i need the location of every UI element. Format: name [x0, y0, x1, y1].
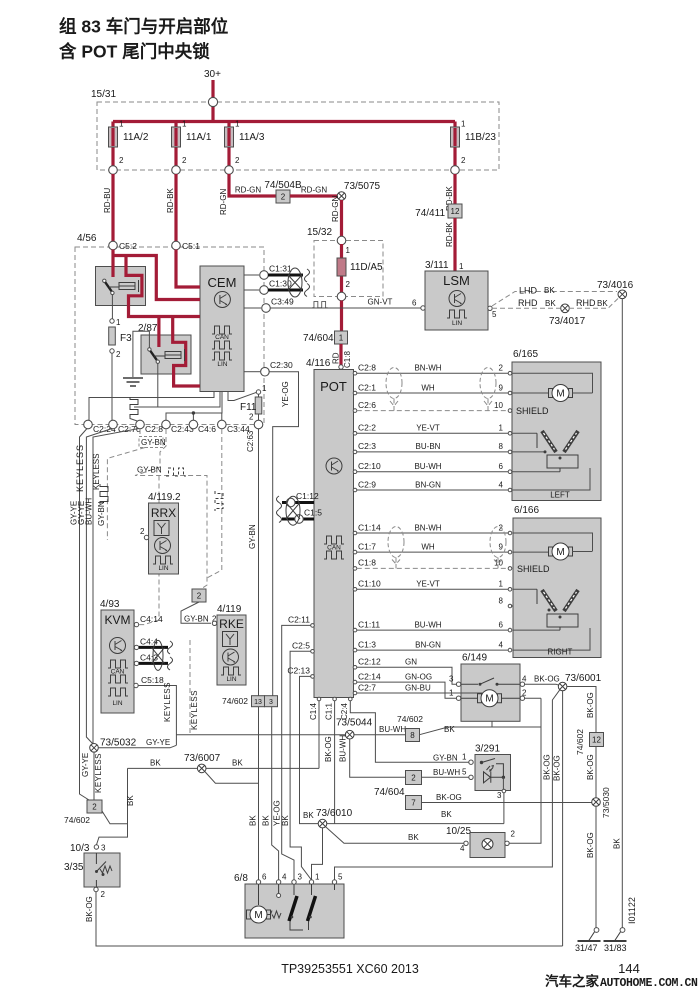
- svg-text:C2:2: C2:2: [358, 423, 376, 433]
- svg-text:BK-OG: BK-OG: [586, 754, 595, 780]
- wire red to 74/604 connector: [340, 301, 343, 332]
- svg-text:C2:63: C2:63: [246, 430, 255, 452]
- svg-text:10/25: 10/25: [446, 826, 471, 837]
- svg-text:6/8: 6/8: [234, 873, 248, 884]
- svg-text:BU-WH: BU-WH: [433, 768, 460, 777]
- svg-text:C2:3: C2:3: [358, 441, 376, 451]
- svg-text:BU-WH: BU-WH: [414, 620, 441, 629]
- svg-text:BK-OG: BK-OG: [553, 755, 562, 781]
- wire C2:7 GN-BU: [357, 692, 492, 694]
- 6/149 internals: [461, 683, 478, 685]
- svg-text:RIGHT: RIGHT: [548, 648, 573, 657]
- svg-text:73/5030: 73/5030: [601, 787, 611, 818]
- svg-text:73/5032: 73/5032: [100, 738, 137, 749]
- svg-text:KEYLESS: KEYLESS: [75, 444, 85, 492]
- svg-text:RD-GN: RD-GN: [301, 186, 327, 195]
- svg-text:C2:30: C2:30: [270, 360, 293, 370]
- svg-text:3/111: 3/111: [425, 260, 449, 271]
- svg-text:BK: BK: [545, 299, 556, 308]
- svg-text:BK-OG: BK-OG: [543, 754, 552, 780]
- svg-text:C1:11: C1:11: [358, 619, 380, 629]
- svg-text:74/602: 74/602: [575, 729, 585, 755]
- KVM pin C5:18 wire: [134, 683, 138, 687]
- svg-text:C2:1: C2:1: [358, 382, 376, 392]
- wire dashed from C3:44: [207, 429, 222, 578]
- svg-text:CAN: CAN: [111, 669, 125, 676]
- svg-text:BK: BK: [597, 299, 608, 308]
- svg-text:13: 13: [254, 699, 262, 706]
- svg-text:3: 3: [269, 699, 273, 706]
- svg-text:2: 2: [182, 156, 187, 165]
- svg-text:73/6010: 73/6010: [316, 808, 353, 819]
- wire BU-WH from 73/5044 to 74/604 pin 2 and 3/291 pin 5: [350, 739, 405, 777]
- svg-text:C1:4: C1:4: [309, 703, 318, 720]
- svg-text:BK: BK: [232, 759, 243, 768]
- svg-text:LIN: LIN: [112, 700, 122, 707]
- svg-text:BN-GN: BN-GN: [415, 480, 441, 489]
- wire GY-BN to RKE pin 2: [181, 602, 211, 623]
- wire LHD dashed: [492, 292, 617, 307]
- wire red junction to relay K2 switch: [157, 317, 160, 348]
- wire GY-YE from C2:70: [86, 429, 112, 745]
- connector 74/604 pin 7: [406, 796, 422, 810]
- svg-text:C1:12: C1:12: [296, 491, 319, 501]
- svg-text:BK-OG: BK-OG: [586, 692, 595, 718]
- svg-text:74/602: 74/602: [397, 714, 423, 724]
- svg-text:2: 2: [461, 156, 466, 165]
- svg-text:4: 4: [499, 480, 504, 489]
- wire BU-WH from C2:8: [93, 429, 139, 744]
- svg-text:BK: BK: [613, 838, 622, 849]
- svg-text:GY-BN: GY-BN: [433, 754, 458, 763]
- node C1:30 with CAN wire: [244, 289, 259, 291]
- svg-text:BU-WH: BU-WH: [339, 735, 348, 762]
- wire RD-BK 11A/1 to C5:1: [174, 174, 177, 241]
- svg-text:BK: BK: [303, 811, 314, 820]
- svg-text:AUTOHOME.COM.CN: AUTOHOME.COM.CN: [600, 977, 698, 990]
- svg-text:8: 8: [499, 442, 504, 451]
- svg-text:C1:8: C1:8: [358, 558, 376, 568]
- wire CEM to C2:24: [89, 392, 214, 421]
- svg-text:LIN: LIN: [158, 565, 168, 572]
- svg-text:GN-BU: GN-BU: [405, 684, 431, 693]
- svg-text:3/35: 3/35: [64, 862, 84, 873]
- wire BK-OG diagonal branch down to 6/8 pin 5: [335, 690, 560, 880]
- svg-text:8: 8: [499, 597, 504, 606]
- ground for relay K2: [133, 331, 150, 377]
- wire red relay K2 coil loop to CEM: [173, 317, 200, 387]
- node C5:1: [172, 241, 181, 250]
- CEM box: [200, 266, 244, 392]
- svg-text:1: 1: [315, 873, 320, 882]
- wire CAN twisted pair to body: [268, 274, 303, 277]
- fuse 11D/A5: [340, 244, 343, 297]
- svg-text:5: 5: [338, 873, 343, 882]
- svg-text:15/31: 15/31: [91, 89, 116, 100]
- svg-text:C2:5: C2:5: [292, 640, 310, 650]
- svg-text:6: 6: [412, 299, 417, 308]
- svg-text:C2:10: C2:10: [358, 461, 381, 471]
- wire BK from 3/291 pin 3 to splice 73/6010: [327, 823, 504, 825]
- svg-text:9: 9: [499, 383, 504, 392]
- svg-text:BN-WH: BN-WH: [414, 364, 441, 373]
- svg-text:4: 4: [499, 640, 504, 649]
- fuse 11A/3: [227, 122, 230, 171]
- svg-text:2: 2: [281, 193, 286, 202]
- node C5:2: [109, 241, 118, 250]
- svg-text:SHIELD: SHIELD: [517, 564, 550, 574]
- KVM pin C4:4 CAN wire: [134, 645, 138, 649]
- svg-text:KEYLESS: KEYLESS: [163, 682, 172, 722]
- svg-text:C1:1: C1:1: [325, 703, 334, 720]
- svg-text:C5:1: C5:1: [182, 241, 200, 251]
- svg-text:BK: BK: [408, 833, 419, 842]
- svg-text:BU-WH: BU-WH: [85, 498, 94, 525]
- svg-text:74/504B: 74/504B: [264, 180, 302, 191]
- svg-text:11B/23: 11B/23: [465, 132, 496, 143]
- svg-text:1: 1: [461, 120, 466, 129]
- svg-text:6/149: 6/149: [462, 653, 487, 664]
- svg-text:4: 4: [522, 675, 527, 684]
- svg-text:2: 2: [346, 280, 351, 289]
- wire A GY-BN from C2:63: [258, 429, 260, 696]
- fusebox 15/31 dashed enclosure: [97, 102, 499, 170]
- svg-text:RD-BK: RD-BK: [445, 221, 454, 247]
- svg-text:15/32: 15/32: [307, 227, 332, 238]
- svg-text:KEYLESS: KEYLESS: [94, 753, 103, 793]
- relay K1 internals: [103, 279, 106, 282]
- POT pin C1:10 wire YE-VT to 6/166 pin 1: [353, 588, 357, 592]
- svg-text:C1:14: C1:14: [358, 522, 381, 532]
- svg-text:C5:2: C5:2: [119, 241, 137, 251]
- svg-text:2: 2: [197, 592, 202, 601]
- wire BK branch from 73/6007 to 6/8 feed: [205, 772, 259, 784]
- svg-text:6/165: 6/165: [513, 349, 538, 360]
- svg-text:3: 3: [101, 844, 106, 853]
- svg-text:1: 1: [262, 384, 267, 393]
- svg-text:BU-BN: BU-BN: [416, 442, 441, 451]
- svg-text:1: 1: [462, 753, 467, 762]
- wire from 73/6010 to 10/25 pin 4: [326, 827, 464, 844]
- KVM pin C4:14: [134, 622, 138, 626]
- splice 73/5030: [592, 798, 601, 807]
- wires C2:12 GN to 6/149 pin 3: [357, 667, 457, 684]
- svg-text:含 POT 尾门中央锁: 含 POT 尾门中央锁: [59, 42, 210, 62]
- wire RD-BK to LSM: [453, 218, 456, 271]
- svg-text:GY-BN: GY-BN: [137, 466, 162, 475]
- wire A continues BK to 6/8 pin 6: [258, 707, 260, 880]
- svg-text:4/119: 4/119: [217, 604, 242, 615]
- POT pin C2:5 wire BK to 6/8 pin 1: [311, 650, 315, 654]
- svg-text:C2:11: C2:11: [288, 615, 310, 625]
- POT pin C2:13 wire BK to splice 73/6010: [311, 675, 315, 679]
- svg-text:6: 6: [262, 873, 267, 882]
- wire dashed GY-BN from C2:8: [139, 429, 141, 436]
- svg-text:C3:49: C3:49: [271, 297, 294, 307]
- wire long BK down right side: [621, 299, 623, 929]
- POT pin C2:11 wire YE-OG to 6/8 pin 3: [311, 624, 315, 628]
- svg-text:C5:18: C5:18: [141, 675, 164, 685]
- svg-text:BN-WH: BN-WH: [414, 523, 441, 532]
- connector 74/604 pin 2: [406, 771, 422, 785]
- svg-text:I01122: I01122: [627, 897, 637, 924]
- svg-text:F3: F3: [120, 333, 132, 344]
- svg-text:2: 2: [101, 890, 106, 899]
- svg-text:C2:13: C2:13: [287, 666, 310, 676]
- svg-text:BK-OG: BK-OG: [85, 896, 94, 922]
- wire BK-OG from 6/149 pin 4 to splice 73/6001: [525, 684, 562, 686]
- svg-text:YE-VT: YE-VT: [416, 580, 440, 589]
- svg-text:BK: BK: [126, 795, 135, 806]
- svg-text:C2:8: C2:8: [358, 363, 376, 373]
- fuse 11A/1: [174, 122, 177, 171]
- svg-text:汽车之家: 汽车之家: [545, 973, 599, 989]
- svg-text:C1:31: C1:31: [269, 264, 292, 274]
- svg-text:3: 3: [449, 675, 454, 684]
- splice 73/4017: [561, 304, 570, 313]
- relay K2 internals: [148, 348, 151, 351]
- fuse 11A/2: [111, 122, 114, 171]
- svg-text:GN-OG: GN-OG: [405, 672, 432, 681]
- relay K1 box: [96, 267, 146, 306]
- svg-text:BK: BK: [262, 815, 271, 826]
- svg-text:2: 2: [119, 156, 124, 165]
- svg-text:BK-OG: BK-OG: [324, 736, 333, 762]
- svg-text:RD-BK: RD-BK: [166, 187, 175, 213]
- svg-text:2: 2: [511, 830, 516, 839]
- KVM pin C4:3 CAN wire: [134, 661, 138, 665]
- svg-text:LEFT: LEFT: [550, 491, 570, 500]
- svg-text:1: 1: [116, 318, 121, 327]
- svg-text:74/602: 74/602: [64, 815, 90, 825]
- svg-text:10/3: 10/3: [70, 843, 90, 854]
- wire RHD dashed: [492, 307, 560, 309]
- svg-text:RHD: RHD: [518, 298, 538, 308]
- wire BK-OG straight down from 73/6001: [562, 691, 564, 946]
- svg-text:3: 3: [497, 791, 502, 800]
- svg-text:C1:3: C1:3: [358, 639, 376, 649]
- POT pin C1:11 wire BU-WH to 6/166 pin 6: [353, 628, 357, 632]
- svg-text:4/116: 4/116: [306, 358, 331, 369]
- svg-text:1: 1: [235, 120, 240, 129]
- wire CEM to F11: [228, 392, 256, 401]
- svg-text:LHD: LHD: [519, 286, 538, 296]
- wire F3 to C2:70: [111, 353, 113, 420]
- wire from 73/6010 down to 6/8 pin 1: [312, 828, 323, 880]
- POT pin C2:9 wire BN-GN to 6/165 pin 4: [353, 488, 357, 492]
- wire right from 73/6001 to 74/602 pin 12: [567, 687, 596, 735]
- POT pin C1:14 wire BN-WH to 6/166 pin 2: [353, 531, 357, 535]
- splice 73/6007 on BK wire: [128, 767, 300, 769]
- svg-text:RD-GN: RD-GN: [235, 186, 261, 195]
- svg-text:73/5044: 73/5044: [336, 718, 373, 729]
- svg-text:2/87: 2/87: [138, 323, 158, 334]
- svg-text:73/6001: 73/6001: [565, 673, 602, 684]
- svg-text:BK-OG: BK-OG: [586, 832, 595, 858]
- dashed keyless line: [189, 640, 191, 734]
- svg-text:6: 6: [499, 462, 504, 471]
- svg-text:BN-GN: BN-GN: [415, 640, 441, 649]
- svg-text:4/93: 4/93: [100, 599, 120, 610]
- svg-text:RD-GN: RD-GN: [331, 196, 340, 222]
- wire CEM to C2:43 C4:6 C3:44: [166, 392, 222, 425]
- splice 73/5032 with GY-YE wire: [90, 744, 99, 753]
- svg-text:73/4016: 73/4016: [597, 280, 634, 291]
- svg-text:POT: POT: [320, 379, 347, 394]
- node on 15/31 top edge: [208, 97, 217, 106]
- svg-text:1: 1: [459, 262, 464, 271]
- svg-text:C2:7: C2:7: [358, 682, 376, 692]
- svg-text:GN: GN: [405, 658, 417, 667]
- svg-text:C4:14: C4:14: [140, 614, 163, 624]
- svg-text:GY-BN: GY-BN: [184, 615, 209, 624]
- svg-text:C1:5: C1:5: [304, 508, 322, 518]
- svg-text:11A/3: 11A/3: [239, 132, 265, 143]
- POT bottom pin C1:1 wire BK-OG: [333, 697, 337, 701]
- svg-text:11A/1: 11A/1: [186, 132, 212, 143]
- POT bottom pin C2:4 wire GY-BN to 3/291 pin 1: [349, 697, 353, 701]
- svg-text:2: 2: [499, 364, 504, 373]
- svg-text:1: 1: [346, 246, 351, 255]
- wire red C5:1 to CEM: [176, 250, 200, 288]
- svg-text:74/604: 74/604: [374, 787, 405, 798]
- svg-text:2: 2: [249, 413, 254, 422]
- svg-text:73/4017: 73/4017: [549, 316, 586, 327]
- svg-text:BK: BK: [544, 286, 555, 295]
- svg-text:4/119.2: 4/119.2: [148, 492, 181, 503]
- svg-text:BU-WH: BU-WH: [379, 725, 406, 734]
- svg-text:12: 12: [451, 207, 460, 216]
- wire red C5:2 branch to CEM: [114, 256, 200, 300]
- svg-text:11A/2: 11A/2: [123, 132, 149, 143]
- svg-text:CAN: CAN: [327, 545, 341, 552]
- svg-text:RD-BU: RD-BU: [103, 187, 112, 213]
- svg-text:2: 2: [411, 774, 416, 783]
- svg-text:1: 1: [499, 424, 504, 433]
- connector 74/602 pin 2: [87, 800, 102, 813]
- wire GY-YE from C2:24: [80, 429, 90, 801]
- POT pin C1:3 wire BN-GN to 6/166 pin 4: [353, 648, 357, 652]
- svg-text:BK: BK: [281, 815, 290, 826]
- wire BK from splice 73/6007 down-left to 10/3: [96, 768, 127, 845]
- svg-text:BK: BK: [249, 815, 258, 826]
- svg-text:5: 5: [492, 310, 497, 319]
- svg-text:C2:14: C2:14: [358, 671, 381, 681]
- wire dashed GY-BN from C2:43: [135, 429, 207, 589]
- wire keyless BK through 74/602 pin 8: [176, 734, 405, 736]
- svg-text:2: 2: [140, 527, 145, 536]
- POT pin C2:1 wire WH to 6/165 pin 9: [353, 391, 357, 395]
- svg-text:RD-GN: RD-GN: [219, 189, 228, 215]
- wires C2:14 GN-OG to 6/149 pin 1: [357, 682, 457, 698]
- svg-text:RD: RD: [332, 352, 341, 364]
- svg-text:KEYLESS: KEYLESS: [190, 690, 199, 730]
- svg-text:74/604: 74/604: [303, 333, 334, 344]
- wire BK-OG from 3/35 pin 2 across bottom: [96, 892, 563, 946]
- connector box 2 to RKE: [192, 589, 206, 602]
- svg-text:1: 1: [339, 334, 344, 343]
- svg-text:F11: F11: [240, 402, 257, 413]
- svg-text:31/47: 31/47: [575, 943, 598, 953]
- svg-text:SHIELD: SHIELD: [516, 406, 549, 416]
- svg-text:C4:6: C4:6: [198, 424, 216, 434]
- svg-text:C4:3: C4:3: [140, 653, 158, 663]
- svg-text:RHD: RHD: [576, 298, 596, 308]
- svg-text:GY-BN: GY-BN: [97, 501, 106, 526]
- svg-text:WH: WH: [421, 542, 435, 551]
- wire dashed to KVM C4:14: [139, 476, 159, 625]
- svg-text:2: 2: [116, 350, 121, 359]
- POT left CAN pair C1:12 C1:5: [282, 501, 314, 504]
- svg-text:LIN: LIN: [452, 320, 462, 327]
- svg-text:CAN: CAN: [215, 334, 229, 341]
- svg-text:8: 8: [410, 731, 415, 740]
- svg-text:4: 4: [282, 873, 287, 882]
- shield ellipses on pair 2: [388, 527, 404, 558]
- fuse 11B/23: [453, 122, 456, 171]
- svg-text:CEM: CEM: [208, 275, 237, 290]
- POT pin C2:8 wire BN-WH to 6/165 pin 2: [353, 371, 357, 375]
- svg-text:C1:7: C1:7: [358, 541, 376, 551]
- svg-text:组 83 车门与开启部位: 组 83 车门与开启部位: [59, 17, 229, 37]
- svg-text:GY-BN: GY-BN: [141, 438, 166, 447]
- wire RD-BU 11A/2 to C5:2: [111, 174, 114, 241]
- svg-text:BK-OG: BK-OG: [436, 793, 462, 802]
- wire BK-OG down to ground 31/47: [595, 806, 597, 929]
- svg-text:30+: 30+: [204, 69, 221, 80]
- svg-text:BK-OG: BK-OG: [534, 675, 560, 684]
- connector row on 4/56 bottom edge: [84, 420, 93, 429]
- svg-text:3/291: 3/291: [475, 744, 500, 755]
- POT pin C2:6 shield dashed to 6/165 pin 10: [353, 409, 357, 413]
- svg-text:GY-YE: GY-YE: [146, 738, 170, 747]
- POT pin C2:10 wire BU-WH to 6/165 pin 6: [353, 470, 357, 474]
- svg-text:1: 1: [119, 120, 124, 129]
- wire CEM to C2:8 with pulse: [134, 392, 220, 408]
- svg-text:3: 3: [298, 873, 303, 882]
- wire red bus: [113, 120, 455, 123]
- 6/8 internals: [258, 884, 260, 905]
- svg-text:1: 1: [182, 120, 187, 129]
- svg-text:WH: WH: [421, 383, 435, 392]
- wire relay K2 output down: [157, 363, 159, 407]
- wire GY-YE keyless down to 74/602: [93, 752, 95, 800]
- svg-text:74/602: 74/602: [222, 696, 248, 706]
- svg-text:KVM: KVM: [104, 613, 130, 627]
- svg-text:BU-WH: BU-WH: [414, 462, 441, 471]
- svg-text:6/166: 6/166: [514, 505, 539, 516]
- svg-text:1: 1: [499, 580, 504, 589]
- module 4/56 dashed enclosure: [75, 247, 264, 425]
- svg-text:4: 4: [460, 844, 465, 853]
- wire RD-GN down to 15/32: [340, 200, 343, 236]
- node C1:31 with CAN wire: [244, 274, 259, 276]
- svg-text:GY-YE: GY-YE: [81, 753, 90, 777]
- svg-text:RRX: RRX: [151, 506, 176, 520]
- svg-text:C2:9: C2:9: [358, 479, 376, 489]
- ground 31/83: [604, 928, 627, 941]
- wire red C5:2 into relay K1: [111, 250, 114, 278]
- svg-text:2: 2: [235, 156, 240, 165]
- svg-text:TP39253551 XC60 2013: TP39253551 XC60 2013: [281, 962, 419, 976]
- svg-text:C1:10: C1:10: [358, 579, 381, 589]
- svg-text:RKE: RKE: [219, 617, 244, 631]
- svg-text:4/56: 4/56: [77, 233, 97, 244]
- wire B YE-OG continuation: [272, 610, 274, 696]
- svg-text:74/411: 74/411: [415, 208, 445, 219]
- svg-text:YE-VT: YE-VT: [416, 424, 440, 433]
- svg-text:LSM: LSM: [443, 273, 470, 288]
